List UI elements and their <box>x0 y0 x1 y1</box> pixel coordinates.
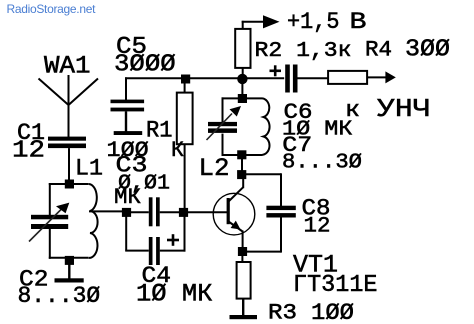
wire R4 to arrow <box>367 76 386 78</box>
svg-text:WA1: WA1 <box>44 52 91 81</box>
capacitor C5 <box>111 77 145 131</box>
transistor VT1 <box>213 172 255 248</box>
node B <box>179 208 188 217</box>
node tank bottom <box>65 256 74 265</box>
wire L2 to collector node <box>241 158 243 172</box>
resistor R2 <box>235 21 265 75</box>
wire rail top <box>125 77 284 79</box>
wire node B to base <box>186 211 227 213</box>
antenna WA1 <box>39 75 99 137</box>
capacitor C1 <box>48 137 86 149</box>
wire C6 to R4 <box>297 77 328 79</box>
svg-text:ГТ311Е: ГТ311Е <box>293 272 378 299</box>
capacitor C3 <box>149 197 160 226</box>
capacitor C8 loop <box>245 173 281 252</box>
node collector <box>237 170 246 179</box>
svg-text:+1,5: +1,5 <box>287 9 340 35</box>
svg-text:L2: L2 <box>199 154 230 183</box>
svg-text:8...3Ø: 8...3Ø <box>18 283 101 309</box>
ground tank <box>55 264 84 283</box>
resistor R4 <box>328 71 367 84</box>
resistor R1 <box>177 83 193 209</box>
wire tap L1 to node A <box>89 210 124 212</box>
svg-text:8...3Ø: 8...3Ø <box>282 152 362 175</box>
svg-text:R2 1,3к: R2 1,3к <box>255 39 352 63</box>
wire C3 to node B <box>160 211 180 213</box>
arrow output <box>385 71 395 83</box>
svg-text:В: В <box>350 9 367 36</box>
svg-text:3ØØ: 3ØØ <box>405 37 450 64</box>
node L2 bottom <box>237 150 246 159</box>
plus sign C6 <box>270 65 282 76</box>
ground R3 <box>230 315 258 319</box>
node A <box>122 208 131 217</box>
svg-text:УНЧ: УНЧ <box>377 94 431 124</box>
capacitor C4 branch <box>125 216 185 252</box>
tank L2 loop <box>222 97 263 156</box>
node L2 top <box>238 94 247 103</box>
capacitor C6 <box>285 65 297 93</box>
svg-text:R3: R3 <box>268 300 297 324</box>
node rail R1 <box>181 75 190 84</box>
variable capacitor C7 <box>207 106 242 140</box>
arrow +1,5V <box>263 15 280 28</box>
plus sign C4 <box>167 234 179 246</box>
node emitter <box>238 247 247 256</box>
wire C1 to tank <box>68 148 70 182</box>
svg-text:1ØØ: 1ØØ <box>311 300 354 324</box>
svg-text:12: 12 <box>12 138 45 165</box>
svg-text:1ØØ: 1ØØ <box>107 137 149 163</box>
svg-text:МК: МК <box>114 185 141 210</box>
resistor R3 <box>237 255 251 316</box>
wire tank loop <box>49 183 89 259</box>
svg-text:R4: R4 <box>365 38 392 63</box>
svg-text:12: 12 <box>304 213 331 239</box>
svg-text:R1: R1 <box>146 118 173 144</box>
inductor L2 <box>263 98 270 154</box>
svg-text:3ØØØ: 3ØØØ <box>114 52 176 79</box>
svg-text:1Ø МК: 1Ø МК <box>136 280 213 309</box>
svg-text:L1: L1 <box>75 156 103 182</box>
svg-text:к: к <box>345 98 360 123</box>
ground C5 <box>114 131 143 135</box>
variable capacitor C2 <box>29 203 69 242</box>
wire node A to C3 <box>129 211 149 213</box>
svg-text:К: К <box>171 137 184 163</box>
junction dot rail <box>237 74 247 84</box>
inductor L1 <box>89 184 98 258</box>
node tank top <box>65 180 74 189</box>
svg-text:RadioStorage.net: RadioStorage.net <box>7 2 97 16</box>
capacitor C8 plates <box>266 206 295 218</box>
wire dot to L2 <box>241 83 243 95</box>
capacitor C4 plates <box>149 237 160 265</box>
